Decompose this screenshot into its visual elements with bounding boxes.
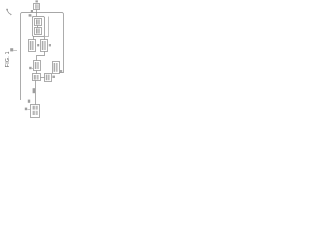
svg-text:FIG. 1: FIG. 1 <box>5 51 11 67</box>
